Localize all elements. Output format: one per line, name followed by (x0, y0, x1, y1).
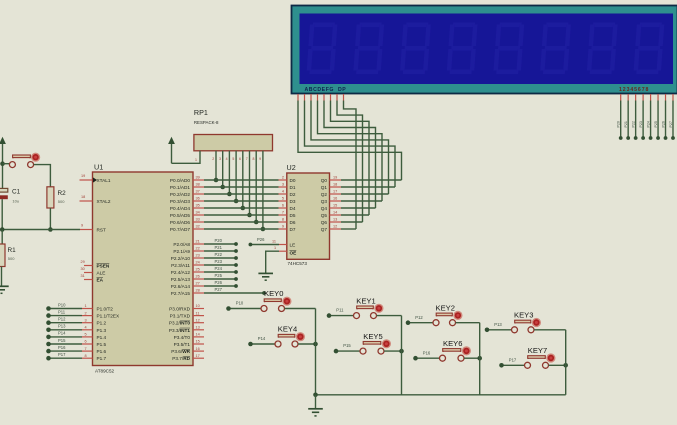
U1 pin XTAL2 (18) (80, 200, 93, 202)
svg-text:P1.5: P1.5 (97, 342, 107, 347)
wire LCD digit 3 net P22 (635, 101, 637, 139)
RP1 pin 4 wire to P0.2 bus (228, 151, 230, 194)
svg-text:11: 11 (196, 311, 200, 315)
svg-text:XTAL1: XTAL1 (97, 178, 111, 183)
svg-text:37: 37 (196, 190, 200, 194)
node net P12 (406, 320, 411, 325)
wire C1 to RST net (1, 199, 3, 229)
wire net P20 (204, 243, 236, 245)
svg-text:13: 13 (333, 218, 337, 222)
svg-text:Q3: Q3 (321, 199, 328, 204)
node LE net (249, 243, 253, 247)
wire R2 to RST net (49, 208, 51, 230)
junction RP1 pin 7 / P0.5 (247, 213, 252, 218)
pin stub LCD digit 6 (657, 94, 659, 101)
svg-text:34: 34 (196, 211, 200, 215)
svg-text:4: 4 (282, 190, 284, 194)
wire U2 Q3 to display column (341, 200, 382, 202)
svg-text:16: 16 (196, 347, 200, 351)
wire net P16 (49, 350, 83, 352)
junction ground bus / column 1 (313, 393, 318, 398)
svg-text:KEY3: KEY3 (514, 311, 533, 320)
svg-text:27: 27 (196, 282, 200, 286)
U1 pin XTAL1 (19) (80, 179, 93, 181)
svg-text:P3.0/RXD: P3.0/RXD (169, 307, 190, 312)
capacitor C1 plate + (0, 188, 8, 192)
U2 pin D0 (2) stub (279, 179, 287, 181)
junction VCC / reset button (0, 161, 5, 166)
svg-text:KEY7: KEY7 (528, 346, 547, 355)
wire VCC down to C1 (2, 164, 4, 189)
U2 pin Q4 (15) stub (330, 207, 342, 209)
svg-text:KEY4: KEY4 (278, 325, 297, 334)
svg-text:C1: C1 (12, 188, 21, 195)
svg-text:7: 7 (282, 211, 284, 215)
svg-text:8: 8 (282, 218, 284, 222)
svg-text:39: 39 (196, 176, 200, 180)
wire net P12 (49, 322, 83, 324)
node digit net P20 (619, 136, 623, 140)
U2 pin D6 (8) stub (279, 221, 287, 223)
svg-text:74HC573: 74HC573 (288, 261, 308, 266)
push button KEY5 (363, 343, 365, 345)
wire LCD digit 7 net P26 (665, 101, 667, 139)
svg-text:P3.6/WR: P3.6/WR (171, 349, 190, 354)
wire LCD segment A to U2 Q0 (298, 101, 402, 181)
svg-text:7: 7 (85, 347, 87, 351)
junction KEY5 / column bus (399, 349, 404, 354)
svg-text:KEY5: KEY5 (363, 332, 382, 341)
node digit net P27 (671, 136, 675, 140)
capacitor C1 plate - (0, 195, 8, 199)
svg-text:P26: P26 (215, 280, 223, 285)
wire LCD segment G to U2 Q6 (337, 101, 363, 223)
wire KEY3 left lead (net P13) (487, 329, 512, 331)
node net P13 (46, 328, 51, 333)
wire KEY4 left lead (net P14) (251, 343, 276, 345)
wire LCD segment DP to U2 Q7 (344, 101, 357, 230)
node net P23 (234, 263, 238, 267)
svg-text:P1.3: P1.3 (97, 328, 107, 333)
LCD ghost digit 6 (540, 23, 571, 75)
node net P13 (485, 328, 490, 333)
U1 pin P1.5 (6) stub (82, 343, 93, 345)
svg-text:P25: P25 (654, 121, 658, 127)
svg-text:U1: U1 (94, 163, 103, 172)
svg-text:P14: P14 (258, 336, 266, 341)
LCD display LCD1 (8-digit 7-seg module) frame (292, 6, 677, 94)
junction RP1 pin 2 / P0.0 (214, 178, 219, 183)
U2 pin Q5 (14) stub (330, 214, 342, 216)
resistor R1 body (0, 244, 5, 267)
pin stub LCD segment DP (343, 94, 345, 101)
svg-text:P3.5/T1: P3.5/T1 (174, 342, 191, 347)
RP1 pin 5 wire to P0.3 bus (235, 151, 237, 201)
wire VCC to RP1 pin 1 (172, 151, 201, 164)
svg-text:9: 9 (259, 157, 261, 161)
power flag VCC (reset circuit) (0, 137, 6, 144)
svg-text:P14: P14 (58, 331, 66, 336)
pin stub LCD digit 5 (650, 94, 652, 101)
wire LCD digit 6 net P25 (657, 101, 659, 139)
svg-text:17: 17 (333, 190, 337, 194)
node digit net P26 (664, 136, 668, 140)
svg-text:P20: P20 (617, 121, 621, 127)
LCD ghost digit 2 (353, 23, 384, 75)
RP1 pin 2 wire to P0.0 bus (215, 151, 217, 180)
svg-text:38: 38 (196, 183, 200, 187)
svg-text:P16: P16 (58, 345, 66, 350)
pin stub LCD digit 3 (635, 94, 637, 101)
svg-text:P21: P21 (624, 121, 628, 127)
svg-text:28: 28 (196, 289, 200, 293)
junction RP1 pin 8 / P0.6 (254, 220, 259, 225)
pin stub LCD digit 4 (642, 94, 644, 101)
svg-text:P22: P22 (215, 252, 223, 257)
junction C1 / RST (0, 227, 5, 232)
svg-text:P0.1/AD1: P0.1/AD1 (170, 185, 190, 190)
U1 pin P2.5 (26) stub (193, 278, 204, 280)
svg-text:8: 8 (252, 157, 254, 161)
svg-text:P0.5/AD5: P0.5/AD5 (170, 213, 190, 218)
RP1 pin 6 wire to P0.4 bus (242, 151, 244, 208)
U1 pin P2.3 (24) stub (193, 264, 204, 266)
wire KEY5 right lead to column bus (384, 350, 402, 352)
svg-text:EA: EA (97, 278, 104, 283)
wire RST to R1 (1, 230, 3, 245)
LCD ghost digit 5 (493, 23, 524, 75)
svg-text:D5: D5 (290, 213, 296, 218)
svg-text:4: 4 (85, 326, 87, 330)
wire KEY7 left lead (net P17) (502, 364, 525, 366)
svg-text:P23: P23 (215, 259, 223, 264)
svg-text:9: 9 (282, 225, 284, 229)
wire OE to ground (266, 251, 279, 273)
node net P11 (327, 313, 332, 318)
U1 pin P2.0 (21) stub (193, 243, 204, 245)
wire net P25 (204, 278, 236, 280)
svg-text:12: 12 (333, 225, 337, 229)
svg-text:P10: P10 (236, 301, 244, 306)
wire KEY7 right lead to column bus (549, 364, 566, 366)
svg-text:P0.0/AD0: P0.0/AD0 (170, 178, 190, 183)
node net P17 (499, 363, 504, 368)
svg-text:10: 10 (196, 304, 200, 308)
wire LCD digit 2 net P21 (627, 101, 629, 139)
RP1 pin 9 wire to P0.7 bus (262, 151, 264, 229)
pin stub LCD digit 7 (665, 94, 667, 101)
svg-text:32: 32 (196, 225, 200, 229)
svg-text:Q0: Q0 (321, 178, 328, 183)
svg-text:P3.1/TXD: P3.1/TXD (170, 314, 191, 319)
ground (keypad) (315, 395, 317, 409)
svg-text:P17: P17 (509, 357, 517, 362)
wire KEY5 left lead (net P15) (336, 350, 360, 352)
wire P0.0 bus to U2 D0 (204, 179, 279, 181)
node net P15 (46, 342, 51, 347)
svg-text:P1.1/T2EX: P1.1/T2EX (97, 314, 121, 319)
svg-text:P27: P27 (215, 287, 223, 292)
svg-text:RP1: RP1 (194, 108, 208, 117)
svg-text:500: 500 (58, 199, 65, 204)
svg-text:ABCDEFG DP: ABCDEFG DP (305, 87, 347, 93)
wire net P13 (49, 329, 83, 331)
node net P12 (46, 320, 51, 325)
svg-text:P25: P25 (215, 273, 223, 278)
node net P10 (46, 306, 51, 311)
svg-text:P0.6/AD6: P0.6/AD6 (170, 220, 190, 225)
LCD ghost digit 7 (587, 23, 618, 75)
U2 pin Q6 (13) stub (330, 221, 342, 223)
svg-text:Q1: Q1 (321, 185, 328, 190)
pin stub LCD digit 2 (627, 94, 629, 101)
svg-text:P12: P12 (415, 315, 423, 320)
wire U2 Q1 to display column (341, 186, 395, 188)
svg-text:LE: LE (290, 243, 296, 248)
U2 pin Q7 (12) stub (330, 228, 342, 230)
node digit net P21 (626, 136, 630, 140)
wire key column bus 1 (315, 309, 317, 395)
push button KEY7 (527, 357, 529, 359)
U1 pin P1.6 (7) stub (82, 350, 93, 352)
svg-text:Q5: Q5 (321, 213, 328, 218)
svg-text:P1.6: P1.6 (97, 349, 107, 354)
svg-text:P0.4/AD4: P0.4/AD4 (170, 206, 190, 211)
svg-text:P2.1/A9: P2.1/A9 (173, 249, 190, 254)
wire KEY2 right lead to column bus (456, 322, 480, 324)
pin stub LCD segment B (304, 94, 306, 101)
U1 pin P1.7 (8) stub (82, 357, 93, 359)
node net P17 (46, 356, 51, 361)
svg-text:33: 33 (196, 218, 200, 222)
node net P22 (234, 256, 238, 260)
wire KEY4 right lead to column bus (298, 343, 316, 345)
svg-text:KEY0: KEY0 (264, 289, 283, 298)
U1 pin P0.4 (35) stub (193, 207, 204, 209)
svg-text:18: 18 (333, 183, 337, 187)
svg-text:D3: D3 (290, 199, 296, 204)
svg-text:18: 18 (81, 195, 85, 199)
pin stub LCD segment F (330, 94, 332, 101)
svg-text:P24: P24 (215, 266, 223, 271)
push button KEY6 (442, 350, 444, 352)
wire net P14 (49, 336, 83, 338)
svg-text:22: 22 (196, 247, 200, 251)
wire net P11 (49, 315, 83, 317)
svg-text:15: 15 (333, 204, 337, 208)
svg-text:6: 6 (282, 204, 284, 208)
wire KEY6 left lead (net P16) (416, 357, 440, 359)
node net P27 (262, 291, 266, 295)
RP1 pin 3 wire to P0.1 bus (222, 151, 224, 187)
wire KEY1 right lead to column bus (377, 315, 402, 317)
svg-text:36: 36 (196, 197, 200, 201)
svg-text:15: 15 (196, 340, 200, 344)
LCD display screen (300, 14, 674, 85)
resistor pack RP1 RESPACK-8 body (194, 135, 273, 151)
U1 pin P3.5 (15) stub (193, 343, 204, 345)
U2 pin OE (1) stub (279, 250, 287, 252)
svg-text:P23: P23 (639, 121, 643, 127)
node net P16 (413, 356, 418, 361)
U1 pin EA (31) (84, 279, 93, 281)
U1 pin P2.1 (22) stub (193, 250, 204, 252)
LCD ghost digit 4 (446, 23, 477, 75)
svg-text:RESPACK-8: RESPACK-8 (194, 120, 219, 125)
U2 pin Q1 (18) stub (330, 186, 342, 188)
svg-text:1: 1 (85, 304, 87, 308)
svg-text:KEY1: KEY1 (356, 296, 375, 305)
wire net P27 (204, 292, 264, 294)
svg-text:6: 6 (239, 157, 241, 161)
U1 pin PSEN (29) (84, 265, 93, 267)
svg-text:P21: P21 (215, 245, 223, 250)
wire P0.4 bus to U2 D4 (204, 207, 279, 209)
svg-text:26: 26 (196, 275, 200, 279)
U2 pin D3 (5) stub (279, 200, 287, 202)
svg-text:P0.2/AD2: P0.2/AD2 (170, 192, 190, 197)
junction RP1 pin 5 / P0.3 (234, 199, 239, 204)
svg-text:U2: U2 (287, 163, 296, 172)
junction KEY6 / column bus (477, 356, 482, 361)
node net P24 (234, 270, 238, 274)
wire key column bus 2 (401, 316, 403, 395)
wire LCD segment D to U2 Q3 (318, 101, 383, 202)
U1 pin P0.6 (33) stub (193, 221, 204, 223)
wire keypad ground bus (316, 394, 566, 396)
svg-text:29: 29 (81, 260, 85, 264)
svg-text:D4: D4 (290, 206, 296, 211)
svg-text:21: 21 (196, 240, 200, 244)
U2 pin D1 (3) stub (279, 186, 287, 188)
wire reset button to R2 (34, 165, 51, 187)
RP1 pin 8 wire to P0.6 bus (255, 151, 257, 222)
svg-text:500: 500 (8, 256, 15, 261)
wire key column bus 3 (479, 323, 481, 395)
svg-text:12345678: 12345678 (619, 87, 649, 93)
node net P10 (226, 306, 231, 311)
U1 pin P3.4 (14) stub (193, 336, 204, 338)
svg-text:OE: OE (290, 250, 297, 255)
svg-text:3: 3 (282, 183, 284, 187)
svg-text:R2: R2 (58, 190, 67, 197)
node digit net P25 (656, 136, 660, 140)
svg-text:P0.3/AD3: P0.3/AD3 (170, 199, 190, 204)
svg-text:P2.4/A12: P2.4/A12 (171, 270, 191, 275)
U1 pin P1.4 (5) stub (82, 336, 93, 338)
LCD ghost digit 3 (400, 23, 431, 75)
pin stub LCD segment C (310, 94, 312, 101)
resistor R2 body (47, 187, 54, 208)
svg-text:1: 1 (195, 158, 197, 162)
U1 pin P1.2 (3) stub (82, 322, 93, 324)
node net P21 (234, 249, 238, 253)
svg-text:P1.7: P1.7 (97, 356, 107, 361)
wire RST net (0, 229, 80, 231)
microcontroller U1 AT89C52 body (93, 172, 194, 366)
svg-text:2: 2 (282, 176, 284, 180)
wire LCD segment C to U2 Q2 (311, 101, 389, 195)
U1 pin P3.7 (17) stub (193, 357, 204, 359)
svg-text:Q6: Q6 (321, 220, 328, 225)
svg-text:P1.2: P1.2 (97, 321, 107, 326)
svg-text:P12: P12 (58, 317, 66, 322)
wire net P22 (204, 257, 236, 259)
junction KEY4 / column bus (313, 342, 318, 347)
pin stub LCD segment D (317, 94, 319, 101)
pin stub LCD segment G (336, 94, 338, 101)
pin stub LCD digit 1 (620, 94, 622, 101)
svg-text:19: 19 (333, 176, 337, 180)
wire R1 to ground (1, 267, 3, 287)
node net P14 (248, 342, 253, 347)
svg-text:P1.4: P1.4 (97, 335, 107, 340)
wire KEY1 left lead (net P11) (329, 315, 354, 317)
U2 pin Q3 (16) stub (330, 200, 342, 202)
power flag VCC at RP1 pin 1 (168, 137, 175, 144)
svg-text:P3.3/INT1: P3.3/INT1 (169, 328, 191, 333)
node net P25 (234, 277, 238, 281)
node net P20 (234, 242, 238, 246)
pin stub LCD segment A (297, 94, 299, 101)
svg-text:23: 23 (196, 254, 200, 258)
wire U2 Q4 to display column (341, 207, 376, 209)
wire LCD digit 4 net P23 (642, 101, 644, 139)
push button KEY0 (264, 301, 266, 303)
svg-text:KEY6: KEY6 (443, 339, 462, 348)
svg-text:Q4: Q4 (321, 206, 328, 211)
wire net P24 (204, 271, 236, 273)
wire net P15 (49, 343, 83, 345)
svg-text:P11: P11 (58, 309, 66, 314)
wire LCD digit 5 net P24 (650, 101, 652, 139)
wire P0.5 bus to U2 D5 (204, 214, 279, 216)
node net P16 (46, 349, 51, 354)
push button KEY4 (278, 336, 280, 338)
wire LCD segment F to U2 Q5 (331, 101, 370, 216)
wire LCD segment E to U2 Q4 (324, 101, 376, 209)
svg-text:P16: P16 (423, 350, 431, 355)
wire key column bus 4 (565, 330, 567, 395)
svg-text:4: 4 (226, 157, 228, 161)
U1 pin P3.2 (12) stub (193, 322, 204, 324)
wire P0.1 bus to U2 D1 (204, 186, 279, 188)
wire KEY0 left lead (net P10) (229, 308, 262, 310)
svg-text:P1.0/T2: P1.0/T2 (97, 307, 114, 312)
wire U2 Q2 to display column (341, 193, 389, 195)
svg-text:7: 7 (246, 157, 248, 161)
ground (U2 OE) (258, 272, 273, 274)
svg-text:2: 2 (212, 157, 214, 161)
svg-text:P15: P15 (343, 343, 351, 348)
svg-text:1: 1 (274, 246, 276, 250)
U1 pin P2.6 (27) stub (193, 285, 204, 287)
ground (reset divider R1) (0, 285, 9, 287)
U2 pin D2 (4) stub (279, 193, 287, 195)
svg-text:6: 6 (85, 340, 87, 344)
U1 pin P0.7 (32) stub (193, 228, 204, 230)
wire LCD segment B to U2 Q1 (305, 101, 396, 188)
svg-text:PSEN: PSEN (97, 264, 110, 269)
svg-text:ALE: ALE (97, 271, 106, 276)
junction RP1 pin 6 / P0.4 (241, 206, 246, 211)
svg-text:P2.5/A13: P2.5/A13 (171, 277, 191, 282)
svg-text:P3.2/INT0: P3.2/INT0 (169, 321, 191, 326)
wire U2 Q7 to display column (341, 228, 356, 230)
svg-text:24: 24 (196, 261, 200, 265)
wire KEY3 right lead to column bus (534, 329, 566, 331)
svg-text:31: 31 (81, 274, 85, 278)
